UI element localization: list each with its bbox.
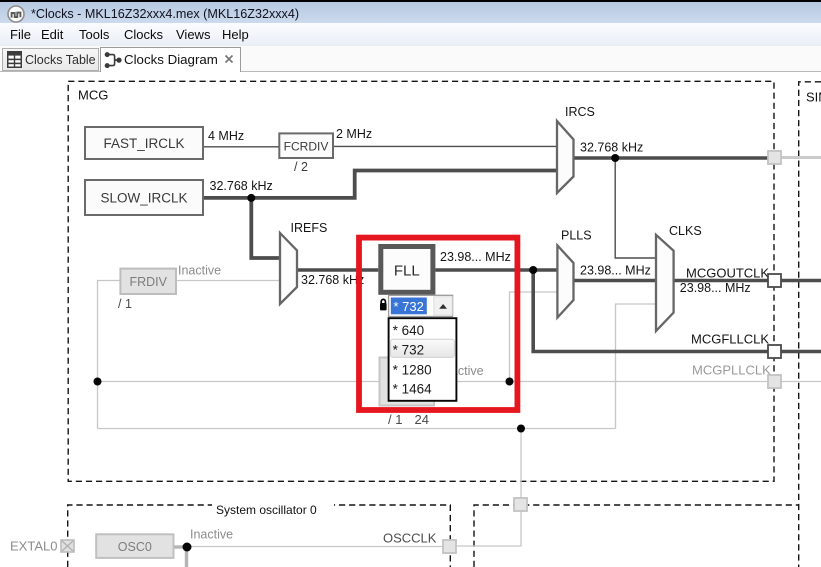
wire OSCCLK riser to CLKS mux (inactive) xyxy=(616,304,657,429)
wire CLKS output MCGOUTCLK xyxy=(674,279,768,283)
junction on PLL ref line xyxy=(94,378,102,386)
wire PLL output to PLLS mux (inactive) xyxy=(510,292,558,382)
block FAST_IRCLK xyxy=(85,127,203,159)
connector on peripheral box border xyxy=(514,498,527,511)
svg-text:System oscillator 0: System oscillator 0 xyxy=(216,503,317,517)
menu bar xyxy=(0,23,821,46)
svg-text:* 732: * 732 xyxy=(393,343,425,358)
wire PLLS output to CLKS mux xyxy=(574,279,657,283)
mux IRCS xyxy=(557,105,595,193)
svg-text:CLKS: CLKS xyxy=(669,224,702,238)
wire XTAL feedback down (inactive) xyxy=(185,547,188,567)
wire SLOW_IRCLK branch to IREFS mux xyxy=(251,198,280,258)
wire IRCS branch to CLKS mux xyxy=(615,158,656,258)
svg-text:32.768 kHz: 32.768 kHz xyxy=(210,179,273,193)
mux CLKS xyxy=(656,224,702,331)
editor tab bar xyxy=(0,46,821,72)
wire SLOW_IRCLK to IRCS mux xyxy=(203,171,557,198)
svg-text:23.98... MHz: 23.98... MHz xyxy=(580,264,651,278)
svg-text:Inactive: Inactive xyxy=(178,264,221,278)
svg-text:/ 1: / 1 xyxy=(118,297,132,311)
svg-text:OSCCLK: OSCCLK xyxy=(383,531,437,546)
SIM container dashed border xyxy=(799,82,821,567)
svg-text:EXTAL0: EXTAL0 xyxy=(10,539,57,554)
connector MCGFLLCLK on border xyxy=(768,345,781,358)
svg-text:2 MHz: 2 MHz xyxy=(336,127,372,141)
connector EXTAL0 on border xyxy=(61,540,74,552)
wire OSC0 output stub (inactive) xyxy=(174,545,188,548)
svg-text:23.98... MHz: 23.98... MHz xyxy=(680,281,751,295)
dropdown list xyxy=(389,318,457,401)
svg-text:OSC0: OSC0 xyxy=(118,540,152,554)
svg-text:32.768 kHz: 32.768 kHz xyxy=(580,141,643,155)
tab Clocks Diagram (active) xyxy=(100,47,241,72)
connector OSCCLK on border xyxy=(443,540,456,553)
svg-text:24: 24 xyxy=(415,412,429,427)
junction on PLL output line xyxy=(506,378,514,386)
svg-text:MCGPLLCLK: MCGPLLCLK xyxy=(692,363,771,378)
svg-text:FRDIV: FRDIV xyxy=(129,275,167,289)
window title bar xyxy=(0,0,821,23)
red highlight rectangle xyxy=(359,238,517,410)
svg-text:IREFS: IREFS xyxy=(291,221,328,235)
wire IRCS output stub right of border (inactive) xyxy=(781,156,821,159)
svg-text:MCGFLLCLK: MCGFLLCLK xyxy=(691,332,769,347)
svg-text:FAST_IRCLK: FAST_IRCLK xyxy=(103,136,184,151)
wire IRCS output xyxy=(574,156,769,160)
svg-text:* 640: * 640 xyxy=(393,323,425,338)
svg-text:32.768 kHz: 32.768 kHz xyxy=(301,273,364,287)
svg-text:PLLS: PLLS xyxy=(561,229,592,243)
svg-text:MCG: MCG xyxy=(78,88,108,103)
combo box field xyxy=(389,295,453,316)
wire OSC0 to OSCCLK connector (inactive) xyxy=(187,546,443,548)
svg-text:/ 1: / 1 xyxy=(388,412,402,427)
junction on OSC0 output xyxy=(183,543,192,552)
svg-text:FLL: FLL xyxy=(394,263,420,280)
junction on SLOW_IRCLK wire xyxy=(247,194,255,202)
peripherals dashed box xyxy=(474,505,799,567)
block SLOW_IRCLK xyxy=(85,180,203,215)
System oscillator 0 label xyxy=(212,498,334,517)
wire MCGFLLCLK branch xyxy=(533,270,768,352)
block PLL (inactive, behind dropdown) xyxy=(380,358,435,406)
MCG label xyxy=(74,86,110,104)
divider FRDIV (inactive) xyxy=(118,269,176,311)
svg-text:23.98... MHz: 23.98... MHz xyxy=(440,250,511,264)
svg-text:* 1280: * 1280 xyxy=(393,363,432,378)
mux IREFS xyxy=(280,221,327,304)
svg-text:MCGOUTCLK: MCGOUTCLK xyxy=(686,266,769,281)
wire FAST_IRCLK to FCRDIV xyxy=(203,146,279,148)
svg-text:Inactive: Inactive xyxy=(190,528,233,542)
wire OSCCLK horizontal run (inactive) xyxy=(98,428,616,430)
wire OSCCLK riser from oscillator (inactive) xyxy=(456,429,521,547)
MCG container dashed box xyxy=(68,81,774,481)
svg-text:SIM: SIM xyxy=(806,90,821,105)
wire MCGFLLCLK stub right of border xyxy=(781,350,821,354)
wire MCGPLLCLK stub right of border (inactive) xyxy=(781,381,821,383)
wire FLL output to PLLS mux xyxy=(435,268,557,272)
block FLL xyxy=(381,247,433,293)
wire IREFS output to FLL xyxy=(297,268,378,272)
tab Clocks Table xyxy=(2,48,99,71)
System oscillator 0 dashed box xyxy=(68,505,451,567)
svg-text:* 1464: * 1464 xyxy=(393,382,433,397)
combo lock icon xyxy=(380,299,387,310)
wire MCGOUTCLK stub right of border xyxy=(781,279,821,283)
junction on IRCS output xyxy=(611,154,619,162)
divider FCRDIV xyxy=(279,133,333,174)
svg-text:IRCS: IRCS xyxy=(565,105,595,119)
svg-text:* 732: * 732 xyxy=(394,299,424,314)
junction on OSCCLK line xyxy=(517,425,525,433)
svg-text:/ 2: / 2 xyxy=(294,160,308,174)
wire FCRDIV to IRCS mux xyxy=(333,145,557,147)
window icon xyxy=(7,5,25,23)
connector MCGPLLCLK on border (inactive) xyxy=(768,375,781,388)
junction on FLL output xyxy=(529,266,537,274)
wire PLL reference line (inactive) xyxy=(98,381,769,383)
svg-text:4 MHz: 4 MHz xyxy=(208,129,244,143)
svg-text:SLOW_IRCLK: SLOW_IRCLK xyxy=(100,191,187,206)
svg-text:FCRDIV: FCRDIV xyxy=(284,140,329,154)
block OSC0 (inactive) xyxy=(96,534,173,558)
connector MCGOUTCLK on border xyxy=(768,274,781,287)
connector IRCS out on MCG border xyxy=(768,151,781,164)
wire FRDIV input/feedback loop (inactive) xyxy=(98,281,281,429)
mux PLLS xyxy=(557,229,591,318)
